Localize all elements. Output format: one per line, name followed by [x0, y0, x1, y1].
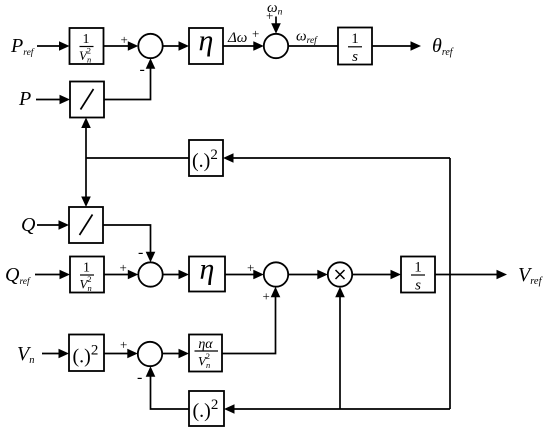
wire Q to divider [37, 224, 61, 226]
svg-text:Qref: Qref [5, 264, 31, 287]
svg-text:-: - [137, 369, 142, 386]
wire S2 to 1/s block [288, 45, 338, 47]
svg-text:s: s [415, 278, 421, 294]
svg-text:+: + [120, 337, 127, 352]
svg-text:ηα: ηα [198, 337, 213, 352]
block eta (Q channel) U-eta2 [189, 257, 225, 292]
wire divider output up into S1 minus input [104, 67, 151, 100]
svg-text:1: 1 [351, 31, 359, 47]
multiplier M1 [328, 262, 352, 286]
block divider P/V^2 [70, 82, 104, 118]
svg-text:Q: Q [21, 214, 36, 236]
svg-text:Vn: Vn [17, 343, 34, 366]
block 1/Vn^2 (P channel) [70, 28, 104, 64]
svg-text:+: + [121, 32, 128, 47]
block (.)^2 upper feedback U-sq1 [189, 140, 223, 176]
svg-text:Vref: Vref [518, 264, 544, 287]
svg-text:+: + [263, 289, 270, 304]
wire 1/s to theta_ref output [372, 45, 413, 47]
svg-text:η: η [199, 24, 214, 57]
svg-text:+: + [266, 8, 273, 23]
block divider Q/V^2 [69, 207, 103, 243]
wire P_ref to 1/Vn2 block [37, 45, 61, 47]
block (.)^2 of Vn U-sq2 [69, 335, 104, 372]
summing junction S5 [138, 342, 162, 366]
svg-text:Pref: Pref [10, 35, 35, 58]
wire eta to summer S4 [225, 274, 255, 276]
wire branch up into multiplier [339, 295, 341, 409]
wire eta-alpha output up into S4 plus input [222, 295, 276, 353]
svg-text:s: s [352, 49, 358, 65]
summing junction S4 [264, 262, 288, 286]
wire feedback vertical tap line [449, 158, 451, 409]
wire S3 to eta block [163, 274, 181, 276]
block 1/s (voltage integrator) [401, 257, 435, 293]
svg-text:+: + [252, 26, 259, 41]
svg-text:θref: θref [432, 35, 454, 58]
wire bottom feedback from tap to sq3 [233, 408, 451, 410]
block eta (P channel) U-eta1 [189, 28, 223, 64]
svg-text:Vn2: Vn2 [198, 351, 210, 370]
svg-text:η: η [200, 253, 215, 286]
svg-text:ωref: ωref [296, 29, 318, 47]
svg-text:Vn2: Vn2 [79, 46, 91, 65]
summing junction S2 [264, 34, 288, 58]
wire sq3 output up into S5 minus input [151, 375, 190, 409]
wire multiplier to 1/s block [352, 274, 392, 276]
summing junction S1 [138, 34, 162, 58]
wire block to summer S3 [104, 274, 130, 276]
wire V^2 vertical feeding both dividers [85, 125, 87, 199]
svg-text:Vn2: Vn2 [80, 274, 92, 293]
block (.)^2 lower feedback U-sq3 [189, 391, 224, 426]
block 1/s (angle integrator) [338, 28, 372, 65]
wire Q_ref to 1/Vn2 block [35, 274, 62, 276]
wire omega_n down into S2 [275, 17, 277, 26]
wire sq2 to summer S5 [104, 353, 129, 355]
wire S1 to eta block [163, 45, 181, 47]
svg-text:Δω: Δω [227, 30, 247, 46]
wire 1/s to V_ref output [435, 274, 499, 276]
svg-text:-: - [138, 244, 143, 261]
block eta-alpha over Vn^2 [189, 335, 222, 372]
svg-text:+: + [247, 260, 254, 275]
wire S5 to eta-alpha block [162, 353, 180, 355]
wire eta to summer S2 [223, 45, 255, 47]
svg-text:-: - [140, 61, 145, 78]
wire divider output down into S3 minus input [103, 225, 151, 254]
block 1/Vn^2 (Q channel) [70, 257, 104, 293]
svg-text:P: P [18, 88, 31, 110]
wire V_n to sq2 block [42, 353, 61, 355]
wire P to divider [36, 99, 62, 101]
wire feedback tap to sq1 input [232, 157, 451, 159]
summing junction S3 [138, 262, 162, 286]
svg-text:+: + [120, 260, 127, 275]
wire block to summer S1 [104, 45, 131, 47]
svg-text:1: 1 [414, 260, 422, 276]
wire sq1 output to divider junction [86, 157, 189, 159]
wire S4 to multiplier [288, 274, 319, 276]
